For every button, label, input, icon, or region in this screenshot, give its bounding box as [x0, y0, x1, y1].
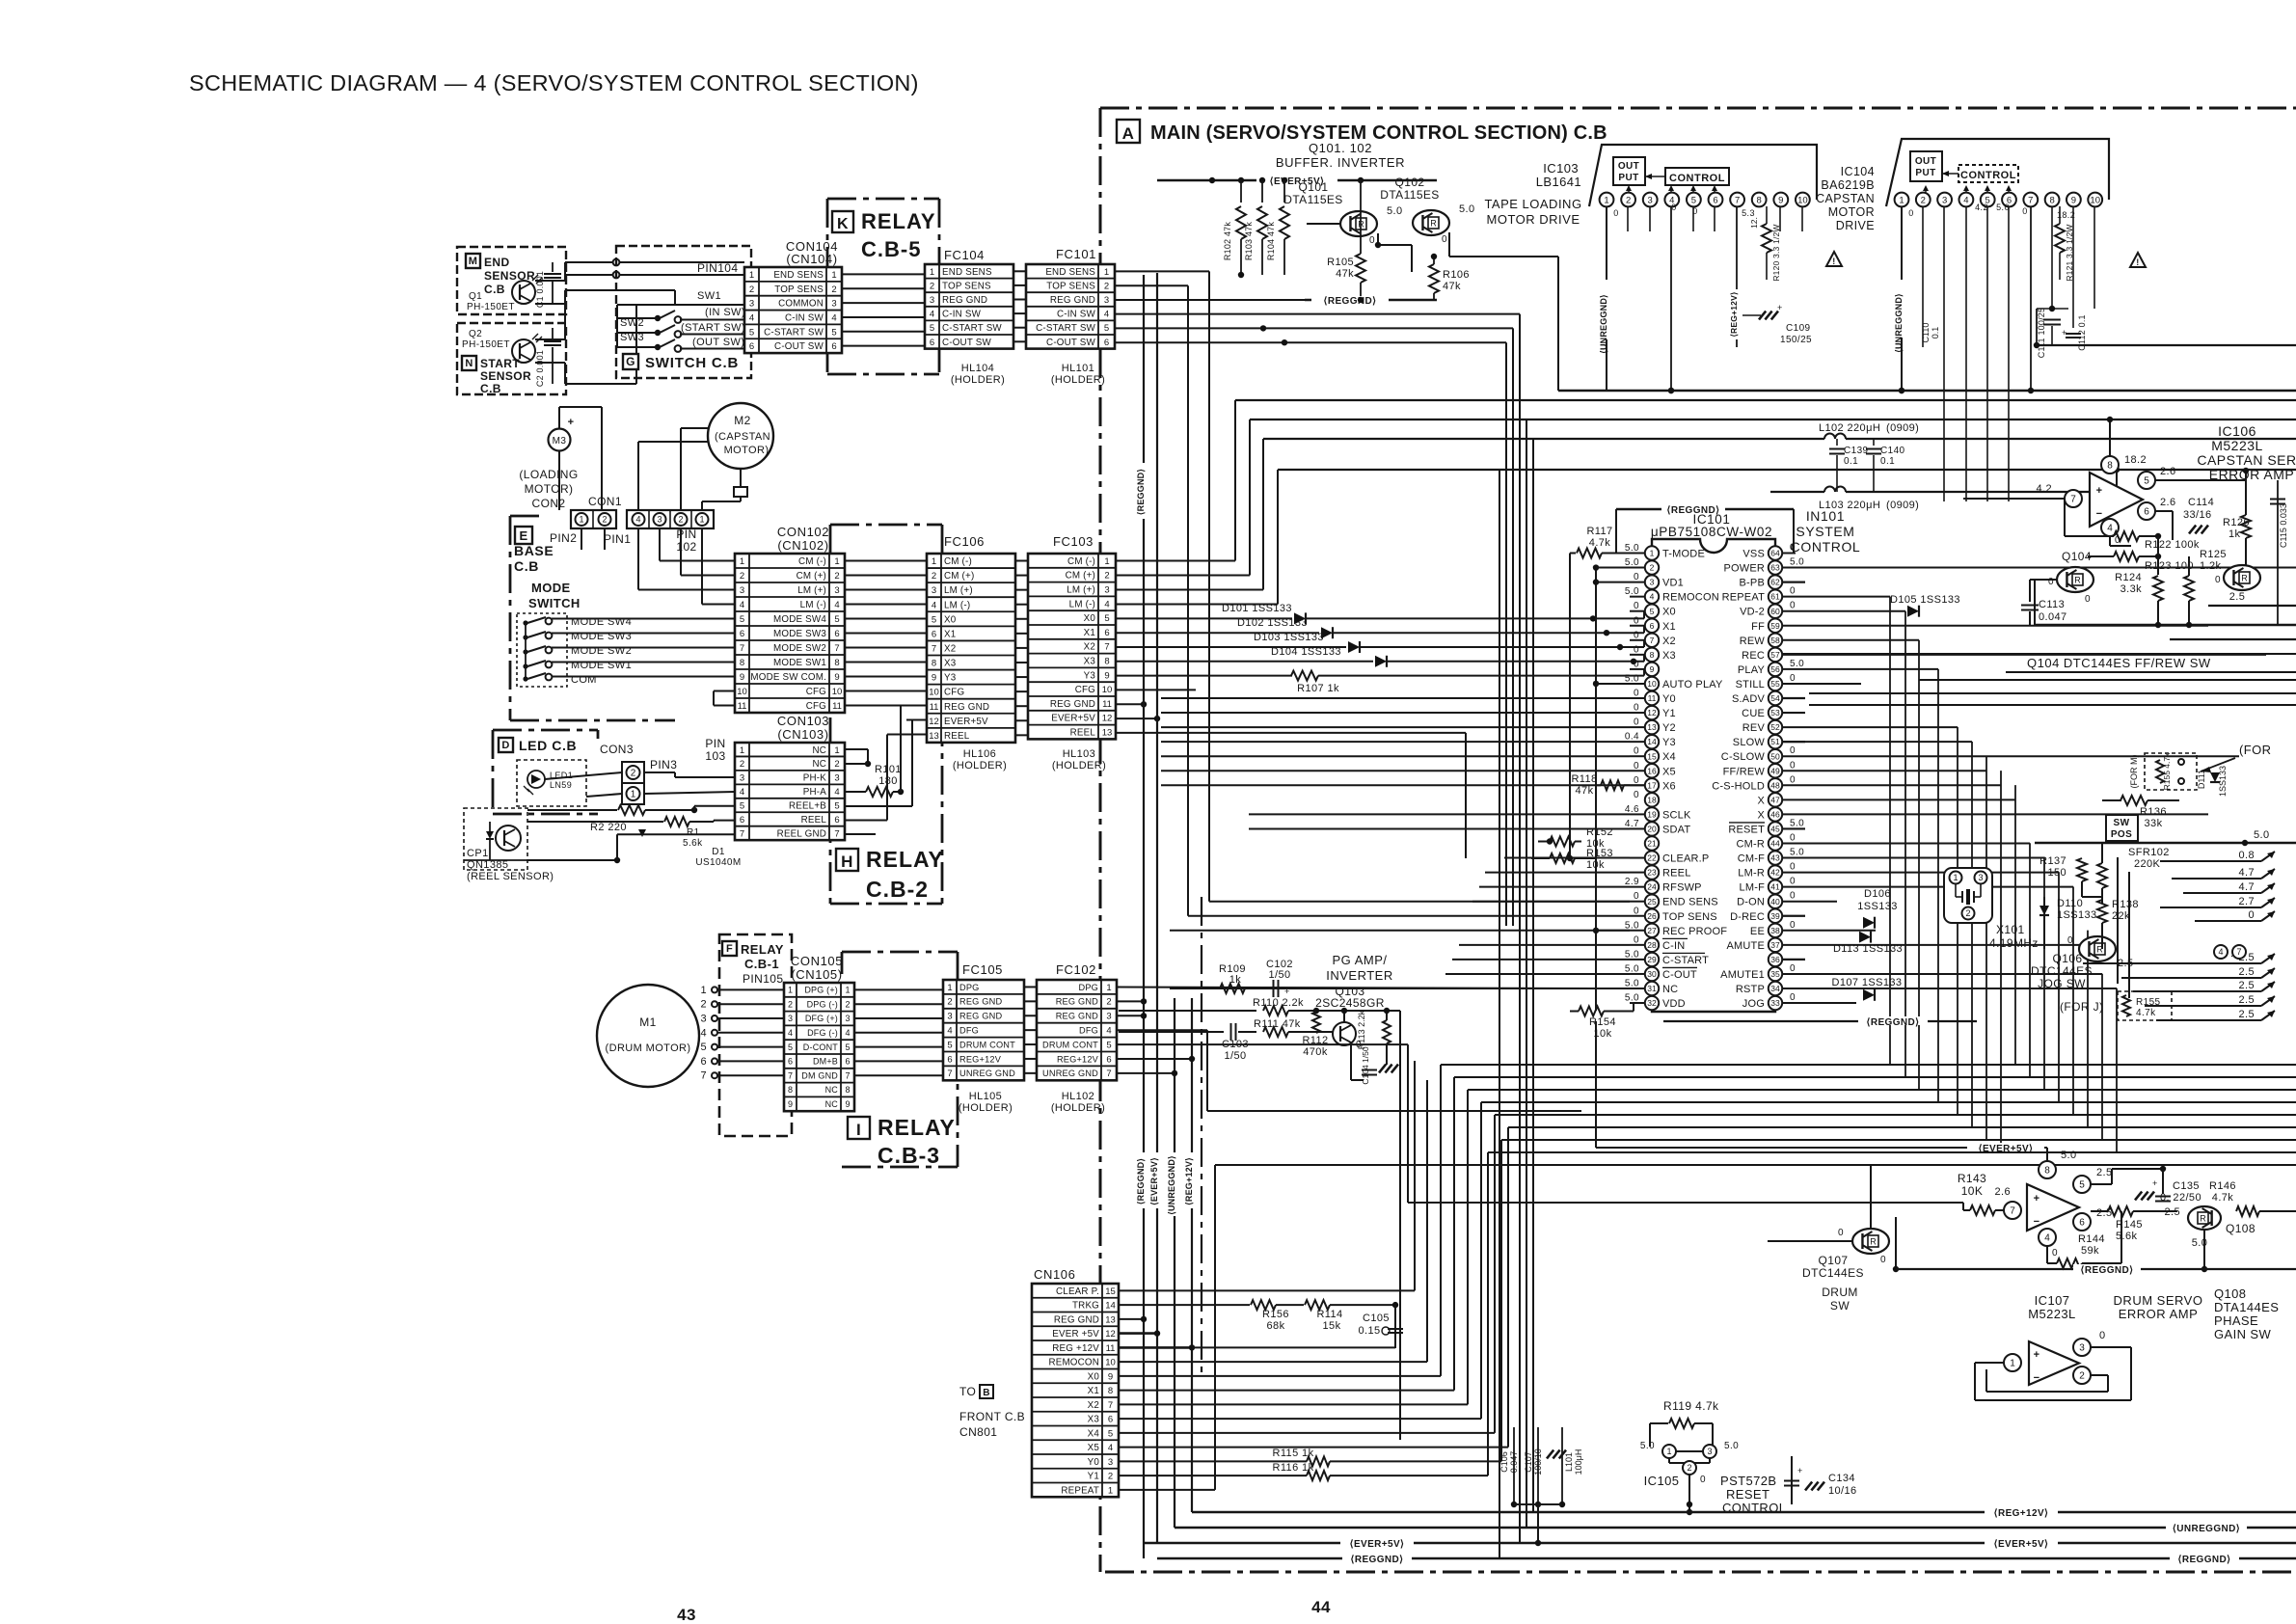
- svg-text:0.1: 0.1: [1931, 327, 1940, 339]
- svg-text:15: 15: [1647, 751, 1657, 761]
- svg-text:DTA115ES: DTA115ES: [1380, 188, 1439, 202]
- capacitor C134 10/16 + ground: [1805, 1482, 1812, 1491]
- svg-text:2: 2: [834, 759, 839, 770]
- svg-text:AMUTE1: AMUTE1: [1720, 969, 1765, 981]
- svg-text:END: END: [484, 256, 510, 269]
- svg-text:3: 3: [740, 773, 744, 784]
- connector PIN3: [622, 762, 644, 783]
- svg-text:L102 220μH: L102 220μH: [1819, 422, 1880, 434]
- svg-text:OUT: OUT: [1618, 161, 1639, 172]
- motor M3 (loading): [549, 429, 571, 451]
- svg-text:C139: C139: [1844, 446, 1869, 456]
- svg-text:+: +: [2152, 1178, 2158, 1188]
- svg-text:R137: R137: [2039, 855, 2066, 867]
- svg-text:21: 21: [1647, 839, 1657, 849]
- transistor Q102: [1413, 210, 1449, 235]
- rail REGGND vertical x1186: [1143, 275, 1145, 1558]
- center vertical bundle: [1519, 314, 1521, 1543]
- svg-text:LM (+): LM (+): [944, 585, 973, 596]
- IC101 right pins: [1769, 546, 1782, 559]
- svg-text:+: +: [568, 417, 575, 428]
- wires LED to PIN3 to CON103: [545, 772, 622, 779]
- svg-text:TO: TO: [959, 1385, 976, 1398]
- wires CON102-FC106: [845, 560, 927, 562]
- svg-text:RFSWP: RFSWP: [1662, 882, 1702, 894]
- svg-text:X2: X2: [944, 643, 956, 654]
- svg-text:14: 14: [1105, 1301, 1116, 1312]
- bus horizontal y435: [1250, 419, 2296, 420]
- svg-text:47: 47: [1770, 795, 1780, 804]
- svg-text:0: 0: [1634, 572, 1639, 582]
- rail x1200 EVER+5V: [1156, 273, 1158, 1543]
- left pins stubs: [1630, 596, 1645, 598]
- svg-text:M5223L: M5223L: [2028, 1307, 2075, 1321]
- svg-text:1: 1: [740, 556, 744, 567]
- svg-text:CUE: CUE: [1742, 708, 1765, 719]
- svg-text:CON3: CON3: [600, 743, 634, 756]
- svg-text:7: 7: [788, 1070, 793, 1080]
- svg-text:CON2: CON2: [532, 497, 566, 510]
- svg-text:(FOR J): (FOR J): [2060, 1000, 2103, 1014]
- svg-text:LM-R: LM-R: [1738, 868, 1765, 880]
- svg-text:TOP SENS: TOP SENS: [1662, 911, 1717, 923]
- svg-text:C2 0.001: C2 0.001: [535, 350, 545, 387]
- svg-text:CM (-): CM (-): [1067, 556, 1095, 567]
- wire EVER+5V row12: [1119, 1332, 1157, 1335]
- svg-text:HL102: HL102: [1062, 1091, 1094, 1102]
- svg-text:12: 12: [1105, 1329, 1116, 1340]
- resistor R145 5.6k: [2091, 1211, 2104, 1222]
- svg-text:8: 8: [845, 1085, 850, 1095]
- svg-text:EVER +5V: EVER +5V: [1052, 1329, 1099, 1340]
- svg-text:PH-150ET: PH-150ET: [467, 302, 515, 312]
- svg-text:MOTOR): MOTOR): [724, 445, 770, 456]
- svg-text:0: 0: [1908, 208, 1913, 218]
- svg-text:RSTP: RSTP: [1736, 984, 1765, 995]
- phototransistor in CP1: [496, 826, 521, 851]
- svg-text:⟨REGGND⟩: ⟨REGGND⟩: [1136, 1158, 1146, 1204]
- wires CON103 rows 1-2 right side: [845, 748, 868, 750]
- svg-text:X0: X0: [944, 614, 957, 625]
- svg-text:6: 6: [740, 629, 744, 639]
- svg-text:I: I: [856, 1121, 861, 1139]
- svg-text:4.2: 4.2: [2037, 483, 2053, 495]
- wire FC103 row11 REG GND: [1116, 703, 1144, 705]
- svg-text:PH-K: PH-K: [803, 773, 826, 784]
- svg-text:X2: X2: [1088, 1400, 1099, 1411]
- svg-text:2.7: 2.7: [2239, 896, 2255, 907]
- svg-text:2.9: 2.9: [1625, 877, 1639, 887]
- svg-text:5.0: 5.0: [1790, 818, 1804, 828]
- svg-text:38: 38: [1770, 926, 1780, 935]
- svg-text:0: 0: [1613, 208, 1618, 218]
- svg-text:CONTROL: CONTROL: [1669, 173, 1725, 184]
- svg-text:6: 6: [831, 341, 836, 352]
- svg-text:M2: M2: [734, 414, 750, 427]
- svg-text:DTA115ES: DTA115ES: [1283, 193, 1342, 206]
- svg-text:SW: SW: [2114, 818, 2130, 828]
- svg-text:LED C.B: LED C.B: [519, 738, 577, 753]
- svg-text:DM GND: DM GND: [801, 1070, 838, 1080]
- svg-text:0: 0: [2067, 935, 2073, 946]
- svg-text:(0909): (0909): [1886, 500, 1919, 511]
- ground + inductor L101 100uH: [1547, 1450, 1553, 1459]
- resistor R120 3.3 1/2W: [1762, 224, 1771, 253]
- svg-text:FRONT C.B: FRONT C.B: [959, 1410, 1025, 1423]
- ladder wires right side: [1919, 679, 2296, 681]
- svg-text:0: 0: [1671, 203, 1676, 212]
- svg-text:Q106: Q106: [2053, 952, 2083, 965]
- svg-text:0: 0: [1634, 891, 1639, 902]
- svg-text:N: N: [465, 358, 473, 369]
- svg-text:FC104: FC104: [944, 248, 985, 262]
- long wires into IC101 left pins (bundle from left): [1161, 697, 1630, 699]
- bus UNREGGND bottom: [1175, 1527, 2296, 1529]
- svg-text:NC: NC: [825, 1085, 839, 1095]
- wire pin5 loop: [2091, 1183, 2112, 1185]
- svg-text:PIN104: PIN104: [697, 261, 738, 275]
- svg-text:R136: R136: [2140, 806, 2167, 818]
- svg-text:4: 4: [932, 600, 936, 610]
- warning triangle right: [2130, 253, 2146, 267]
- svg-text:43: 43: [1770, 853, 1780, 863]
- board label A MAIN (SERVO/SYSTEM CONTROL SECTION) C.B: [1117, 120, 1140, 143]
- svg-text:0: 0: [1790, 760, 1796, 771]
- svg-text:⟨UNREGGND⟩: ⟨UNREGGND⟩: [1167, 1155, 1176, 1215]
- svg-text:T-MODE: T-MODE: [1662, 549, 1705, 560]
- svg-text:3: 3: [700, 1014, 707, 1025]
- wires M2 to CON1: [681, 427, 708, 429]
- svg-text:CON103: CON103: [777, 714, 829, 728]
- svg-text:C105: C105: [1363, 1313, 1390, 1324]
- svg-text:REG GND: REG GND: [1056, 1012, 1098, 1021]
- box N START SENSOR C.B: [457, 323, 566, 394]
- svg-text:R156: R156: [1262, 1309, 1289, 1320]
- svg-text:9: 9: [1104, 670, 1109, 681]
- svg-text:1: 1: [1604, 195, 1608, 205]
- svg-text:1: 1: [579, 515, 583, 525]
- svg-text:0.047: 0.047: [2039, 611, 2067, 623]
- svg-text:1SS133: 1SS133: [2057, 909, 2097, 921]
- svg-text:8: 8: [2107, 461, 2113, 472]
- svg-text:31: 31: [1647, 984, 1657, 993]
- svg-text:REEL+B: REEL+B: [789, 801, 826, 812]
- bus horizontal y415 from FC101 elbows: [1235, 399, 2296, 401]
- svg-text:4.7: 4.7: [2239, 867, 2255, 879]
- svg-text:⟨REGGND⟩: ⟨REGGND⟩: [1324, 296, 1377, 307]
- svg-text:X101: X101: [1996, 923, 2025, 936]
- svg-text:JOG SW: JOG SW: [2038, 977, 2086, 990]
- svg-text:11: 11: [1648, 693, 1657, 703]
- svg-text:(LOADING: (LOADING: [519, 468, 578, 481]
- svg-text:BA6219B: BA6219B: [1821, 178, 1875, 192]
- IC106 wires: [2109, 420, 2111, 456]
- svg-text:7: 7: [1735, 195, 1740, 205]
- capacitor C104 1/50 + ground: [1350, 1042, 1352, 1080]
- svg-text:8: 8: [2044, 1166, 2050, 1177]
- svg-text:0: 0: [1634, 689, 1639, 699]
- svg-text:D104 1SS133: D104 1SS133: [1271, 646, 1341, 658]
- svg-text:NC: NC: [812, 745, 826, 756]
- label Q104 DTC144ES FF/REW SW: [1783, 653, 2296, 655]
- svg-text:M: M: [469, 256, 478, 267]
- wire Q107 collector up: [1870, 1165, 1872, 1229]
- svg-text:SLOW: SLOW: [1733, 737, 1766, 748]
- svg-text:R107 1k: R107 1k: [1297, 683, 1339, 694]
- svg-text:C114: C114: [2188, 497, 2214, 508]
- resistor R102 47k: [1240, 180, 1242, 203]
- wire CLEAR P row: [1119, 1289, 1415, 1291]
- svg-text:!: !: [2136, 257, 2139, 267]
- svg-text:⟨REGGND⟩: ⟨REGGND⟩: [2081, 1265, 2134, 1276]
- svg-text:2: 2: [845, 999, 850, 1009]
- svg-text:7: 7: [2010, 1206, 2015, 1217]
- svg-text:(CAPSTAN: (CAPSTAN: [715, 431, 770, 443]
- svg-text:6: 6: [1650, 621, 1655, 631]
- svg-text:SCHEMATIC DIAGRAM — 4 (SERVO: SCHEMATIC DIAGRAM — 4 (SERVO/SYSTEM CONT…: [189, 70, 919, 95]
- svg-text:R: R: [1870, 1237, 1877, 1247]
- svg-text:16: 16: [1647, 766, 1657, 775]
- svg-text:3: 3: [1650, 578, 1655, 587]
- svg-text:LM (+): LM (+): [1067, 585, 1095, 596]
- svg-text:4: 4: [1104, 599, 1109, 609]
- svg-text:5: 5: [740, 614, 744, 625]
- rail x1218 UNREGGND: [1174, 998, 1175, 1528]
- svg-text:RELAY: RELAY: [741, 942, 784, 957]
- svg-text:52: 52: [1770, 722, 1780, 732]
- box I RELAY C.B-3 (dash-dot): [842, 951, 958, 954]
- box K RELAY C.B-5 (dash-dot): [827, 198, 939, 201]
- svg-text:4: 4: [834, 787, 839, 798]
- svg-text:D102 1SS133: D102 1SS133: [1237, 617, 1308, 629]
- svg-text:DM+B: DM+B: [813, 1057, 838, 1067]
- svg-text:D107 1SS133: D107 1SS133: [1832, 977, 1903, 988]
- junction dots bottom buses: [1511, 1502, 1517, 1507]
- capacitor C140 0.1: [1873, 439, 1875, 446]
- svg-text:X2: X2: [1662, 636, 1676, 647]
- connector CON1: [627, 510, 714, 528]
- IC107b loop wires: [2091, 1346, 2131, 1348]
- svg-text:6: 6: [1106, 1054, 1111, 1065]
- svg-text:3: 3: [657, 515, 662, 525]
- svg-text:R123 100: R123 100: [2145, 560, 2194, 572]
- svg-text:2: 2: [740, 759, 744, 770]
- svg-text:Q1: Q1: [469, 291, 482, 302]
- svg-text:0: 0: [2215, 575, 2221, 585]
- svg-text:6: 6: [1104, 628, 1109, 638]
- svg-text:CAPSTAN: CAPSTAN: [1816, 192, 1875, 205]
- svg-text:C-OUT: C-OUT: [1662, 969, 1697, 981]
- circled pins 4 and 7: [2214, 945, 2228, 959]
- diode D101 1SS133: [1116, 617, 1292, 619]
- capacitor C111 100/25: [2037, 308, 2068, 310]
- svg-text:⟨REGGND⟩: ⟨REGGND⟩: [2178, 1555, 2231, 1565]
- svg-text:6: 6: [749, 341, 754, 352]
- svg-text:R152: R152: [1586, 826, 1613, 838]
- wires CON102 rows 10-11 stubs: [714, 690, 735, 692]
- wire REMOCON row10: [1119, 1361, 1427, 1363]
- resistor R136 33k: [2102, 799, 2121, 801]
- IC103 chip outline: [1589, 145, 1817, 206]
- svg-text:BUFFER. INVERTER: BUFFER. INVERTER: [1276, 155, 1405, 170]
- svg-text:6: 6: [834, 629, 839, 639]
- svg-text:X1: X1: [1084, 628, 1095, 638]
- svg-text:10k: 10k: [1586, 859, 1605, 871]
- wire END sensor to CON104 row1: [535, 280, 565, 282]
- svg-text:⟨REGGND⟩: ⟨REGGND⟩: [1867, 1017, 1920, 1028]
- svg-text:X0: X0: [1084, 613, 1096, 624]
- svg-text:40: 40: [1770, 897, 1780, 907]
- svg-text:+: +: [1797, 1466, 1803, 1475]
- svg-text:0: 0: [2022, 206, 2027, 216]
- svg-text:SWITCH: SWITCH: [528, 596, 581, 610]
- svg-text:⟨REG+12V⟩: ⟨REG+12V⟩: [1184, 1157, 1194, 1205]
- svg-text:22: 22: [1647, 853, 1657, 863]
- svg-text:(OUT SW): (OUT SW): [692, 337, 744, 348]
- svg-text:TOP SENS: TOP SENS: [1046, 281, 1095, 291]
- svg-text:A: A: [1122, 124, 1135, 143]
- svg-text:X2: X2: [1084, 642, 1095, 653]
- svg-text:VDD: VDD: [1662, 998, 1686, 1010]
- svg-text:HL105: HL105: [969, 1091, 1002, 1102]
- svg-text:4: 4: [740, 787, 744, 798]
- svg-text:+: +: [2034, 1349, 2040, 1361]
- svg-text:4: 4: [834, 600, 839, 610]
- svg-text:4: 4: [788, 1028, 793, 1038]
- svg-text:C-START SW: C-START SW: [942, 323, 1002, 334]
- svg-text:26: 26: [1647, 911, 1657, 921]
- svg-text:5: 5: [1104, 613, 1109, 624]
- svg-text:CM (+): CM (+): [1066, 571, 1095, 582]
- svg-text:0: 0: [1634, 630, 1639, 640]
- svg-text:5.0: 5.0: [1790, 557, 1804, 568]
- svg-text:⟨UNREGGND⟩: ⟨UNREGGND⟩: [1599, 294, 1608, 354]
- svg-text:REEL: REEL: [944, 731, 970, 742]
- svg-text:REG +12V: REG +12V: [1052, 1343, 1099, 1354]
- svg-text:C113: C113: [2039, 599, 2065, 610]
- transistor Q105: [2224, 565, 2260, 590]
- svg-text:REPEAT: REPEAT: [1722, 592, 1765, 604]
- svg-text:2SC2458GR: 2SC2458GR: [1315, 996, 1385, 1010]
- svg-text:END SENS: END SENS: [1045, 267, 1095, 278]
- svg-text:13: 13: [1105, 1314, 1116, 1325]
- wires into pins 22-31 from left: [1504, 857, 1630, 859]
- svg-text:SDAT: SDAT: [1662, 824, 1690, 835]
- svg-text:(START SW): (START SW): [681, 322, 745, 334]
- svg-text:−: −: [2034, 1216, 2040, 1228]
- svg-text:32: 32: [1647, 998, 1657, 1008]
- svg-text:6: 6: [788, 1057, 793, 1067]
- svg-text:4: 4: [1106, 1025, 1111, 1036]
- svg-text:(IN SW): (IN SW): [705, 307, 745, 318]
- svg-text:11: 11: [832, 701, 842, 712]
- svg-text:1: 1: [947, 983, 952, 993]
- svg-text:B-PB: B-PB: [1740, 578, 1765, 589]
- svg-text:HL103: HL103: [1063, 748, 1095, 760]
- svg-text:4: 4: [2044, 1233, 2050, 1244]
- svg-text:6: 6: [1108, 1415, 1113, 1425]
- svg-text:(REEL SENSOR): (REEL SENSOR): [467, 871, 554, 882]
- svg-text:0: 0: [1790, 920, 1796, 931]
- svg-text:R124: R124: [2115, 572, 2142, 583]
- svg-text:R1: R1: [687, 827, 700, 838]
- svg-text:9: 9: [932, 673, 936, 684]
- svg-text:(FOR: (FOR: [2239, 743, 2271, 757]
- transistor Q108: [2188, 1206, 2221, 1230]
- right pin short stubs: [1783, 581, 1805, 582]
- svg-text:LM (-): LM (-): [1069, 599, 1095, 609]
- wire UNREG GND row: [1117, 1072, 1175, 1074]
- svg-text:0.047: 0.047: [1509, 1451, 1519, 1474]
- svg-text:13: 13: [1647, 722, 1657, 732]
- svg-text:BASE: BASE: [514, 543, 554, 558]
- svg-text:X0: X0: [1088, 1371, 1100, 1382]
- svg-text:R110 2.2k: R110 2.2k: [1253, 997, 1304, 1009]
- svg-text:C109: C109: [1786, 323, 1811, 334]
- wires FC106 rows 12-13 from below: [906, 719, 927, 721]
- svg-text:⟨EVER+5V⟩: ⟨EVER+5V⟩: [1994, 1539, 2049, 1550]
- svg-text:8: 8: [932, 659, 936, 669]
- bus REGGND: [1305, 299, 1437, 302]
- svg-text:REMOCON: REMOCON: [1662, 592, 1719, 604]
- svg-text:11: 11: [1106, 1343, 1116, 1354]
- svg-text:REEL: REEL: [1662, 868, 1691, 880]
- svg-text:D-CONT: D-CONT: [803, 1042, 838, 1052]
- svg-text:8: 8: [2049, 195, 2054, 205]
- svg-text:0.1: 0.1: [1844, 456, 1858, 467]
- svg-text:Q2: Q2: [469, 329, 482, 339]
- svg-text:9: 9: [1778, 195, 1783, 205]
- svg-text:2.6: 2.6: [1995, 1186, 2012, 1198]
- diode D110 1SS133: [2039, 906, 2049, 915]
- svg-text:6: 6: [947, 1054, 952, 1065]
- svg-text:C-START SW: C-START SW: [764, 327, 824, 338]
- svg-text:END SENS: END SENS: [942, 267, 992, 278]
- svg-text:2: 2: [930, 281, 934, 291]
- svg-text:(0909): (0909): [1886, 422, 1919, 434]
- svg-text:C.B-2: C.B-2: [866, 877, 929, 902]
- svg-text:12: 12: [1647, 708, 1657, 717]
- svg-text:R143: R143: [1958, 1172, 1986, 1185]
- svg-text:⟨REGGND⟩: ⟨REGGND⟩: [1136, 469, 1146, 515]
- resistor R112 470k: [1312, 1012, 1320, 1033]
- wire FC101 row4 to bundle: [1115, 313, 1520, 315]
- vertical feed line left of IC101: [1595, 568, 1597, 1012]
- svg-text:CP1: CP1: [467, 848, 489, 859]
- svg-text:(HOLDER): (HOLDER): [953, 760, 1007, 771]
- svg-text:LB1641: LB1641: [1536, 175, 1581, 189]
- svg-text:36: 36: [1770, 955, 1780, 964]
- svg-text:VD1: VD1: [1662, 578, 1684, 589]
- svg-text:CM (+): CM (+): [944, 571, 974, 582]
- svg-text:G: G: [626, 355, 635, 368]
- svg-text:5: 5: [831, 327, 836, 338]
- svg-text:DFG (-): DFG (-): [807, 1028, 838, 1038]
- svg-text:R144: R144: [2078, 1233, 2105, 1245]
- svg-text:1: 1: [2010, 1359, 2015, 1369]
- svg-text:B: B: [983, 1388, 990, 1398]
- svg-text:REG+12V: REG+12V: [959, 1054, 1002, 1064]
- svg-text:REPEAT: REPEAT: [1061, 1485, 1099, 1496]
- svg-text:DRUM CONT: DRUM CONT: [959, 1040, 1015, 1049]
- svg-text:MOTOR): MOTOR): [525, 482, 574, 496]
- svg-text:R: R: [1430, 219, 1437, 229]
- svg-text:CLEAR P.: CLEAR P.: [1056, 1286, 1099, 1297]
- svg-text:MODE SW COM.: MODE SW COM.: [750, 672, 826, 683]
- svg-text:C1 0.001: C1 0.001: [535, 271, 545, 308]
- svg-text:TOP SENS: TOP SENS: [942, 281, 991, 291]
- svg-text:9: 9: [2071, 195, 2076, 205]
